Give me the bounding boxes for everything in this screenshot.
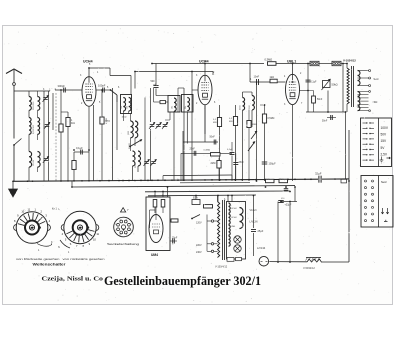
svg-text:50kΩ: 50kΩ bbox=[332, 83, 338, 87]
svg-text:2MΩ: 2MΩ bbox=[211, 163, 216, 165]
svg-text:0,5MΩ: 0,5MΩ bbox=[129, 143, 131, 149]
svg-text:V-150/4/12: V-150/4/12 bbox=[215, 266, 228, 269]
svg-text:50V: 50V bbox=[381, 133, 388, 137]
svg-text:von rückwärts gesehen: von rückwärts gesehen bbox=[63, 257, 106, 261]
svg-text:0,1MΩ: 0,1MΩ bbox=[204, 150, 211, 152]
svg-text:10k: 10k bbox=[172, 106, 174, 109]
svg-text:50nF: 50nF bbox=[322, 121, 328, 123]
svg-text:0,5MΩ: 0,5MΩ bbox=[268, 118, 275, 120]
svg-text:50nF: 50nF bbox=[210, 137, 216, 139]
svg-text:50/150: 50/150 bbox=[33, 159, 35, 166]
svg-text:0,1µF: 0,1µF bbox=[76, 146, 83, 150]
svg-text:3: 3 bbox=[130, 224, 131, 226]
svg-text:2: 2 bbox=[126, 219, 127, 221]
svg-text:32µF: 32µF bbox=[315, 172, 322, 176]
svg-text:8: 8 bbox=[115, 224, 116, 226]
svg-text:5: 5 bbox=[126, 235, 127, 237]
svg-text:N: N bbox=[58, 246, 60, 249]
svg-text:Czeija, Nissl u. Co: Czeija, Nissl u. Co bbox=[42, 276, 104, 283]
svg-text:Sockelschaltung: Sockelschaltung bbox=[107, 242, 140, 246]
svg-text:9+Ω: 9+Ω bbox=[374, 77, 379, 81]
svg-text:200Ω: 200Ω bbox=[240, 105, 242, 110]
svg-text:570: 570 bbox=[267, 179, 270, 181]
svg-text:UCH4: UCH4 bbox=[199, 60, 209, 64]
svg-text:120V: 120V bbox=[196, 222, 202, 225]
svg-text:100V: 100V bbox=[381, 126, 389, 130]
svg-text:0,1µF: 0,1µF bbox=[227, 149, 233, 151]
svg-text:L/V134: L/V134 bbox=[257, 246, 266, 250]
svg-text:MΩ: MΩ bbox=[213, 122, 217, 124]
svg-text:30k: 30k bbox=[185, 106, 187, 109]
svg-text:1: 1 bbox=[120, 219, 121, 221]
svg-text:0,1µF: 0,1µF bbox=[311, 82, 318, 84]
svg-text:0,05/1500: 0,05/1500 bbox=[33, 124, 35, 134]
svg-text:50nF: 50nF bbox=[317, 99, 323, 101]
svg-text:500/1500: 500/1500 bbox=[33, 101, 35, 110]
svg-text:30Ω: 30Ω bbox=[135, 164, 137, 168]
svg-text:UCH4: UCH4 bbox=[231, 208, 237, 210]
svg-text:Netz: Netz bbox=[381, 180, 387, 184]
svg-text:Wellenschalter: Wellenschalter bbox=[33, 263, 67, 267]
svg-text:1kΩ: 1kΩ bbox=[270, 76, 275, 79]
svg-text:220V: 220V bbox=[196, 244, 202, 247]
svg-text:25nF: 25nF bbox=[190, 149, 196, 151]
svg-text:25nF: 25nF bbox=[172, 238, 178, 240]
svg-text:100pF: 100pF bbox=[98, 84, 106, 88]
svg-text:UM4: UM4 bbox=[151, 253, 158, 257]
svg-text:4: 4 bbox=[130, 230, 131, 232]
svg-text:100Ω: 100Ω bbox=[122, 117, 127, 119]
svg-text:7: 7 bbox=[115, 230, 116, 232]
svg-text:≈9Ω: ≈9Ω bbox=[373, 100, 378, 104]
svg-text:300pF: 300pF bbox=[58, 84, 66, 88]
svg-text:V-5032/12: V-5032/12 bbox=[303, 266, 315, 270]
svg-text:UCH4: UCH4 bbox=[231, 217, 237, 219]
svg-text:MΩ: MΩ bbox=[229, 121, 233, 123]
svg-text:UBL1: UBL1 bbox=[287, 60, 296, 64]
svg-text:100: 100 bbox=[121, 106, 123, 109]
svg-text:ESA: ESA bbox=[193, 197, 198, 200]
svg-text:10nF: 10nF bbox=[254, 76, 260, 79]
svg-text:120: 120 bbox=[281, 179, 284, 181]
svg-text:Gestelleinbauempfänger 302/1: Gestelleinbauempfänger 302/1 bbox=[104, 273, 261, 288]
svg-text:4,5MΩ: 4,5MΩ bbox=[106, 117, 108, 124]
svg-text:von Rückseite gesehen: von Rückseite gesehen bbox=[16, 257, 60, 261]
svg-text:2,5V: 2,5V bbox=[381, 152, 388, 156]
svg-text:für 1: für 1 bbox=[52, 208, 57, 211]
svg-text:100µF: 100µF bbox=[269, 163, 277, 166]
svg-text:+32µF: +32µF bbox=[285, 204, 292, 207]
svg-text:UCH4: UCH4 bbox=[83, 60, 93, 64]
svg-text:240V: 240V bbox=[196, 251, 202, 254]
svg-text:V-1024/12: V-1024/12 bbox=[343, 59, 356, 63]
svg-text:500: 500 bbox=[151, 80, 156, 83]
svg-text:0,3MΩ: 0,3MΩ bbox=[265, 58, 273, 62]
svg-text:15V: 15V bbox=[381, 139, 388, 143]
svg-text:700Ω: 700Ω bbox=[249, 105, 251, 110]
svg-text:100: 100 bbox=[126, 106, 128, 109]
svg-text:6: 6 bbox=[120, 235, 121, 237]
svg-text:25µF: 25µF bbox=[258, 230, 264, 233]
svg-text:25nF: 25nF bbox=[239, 162, 245, 164]
